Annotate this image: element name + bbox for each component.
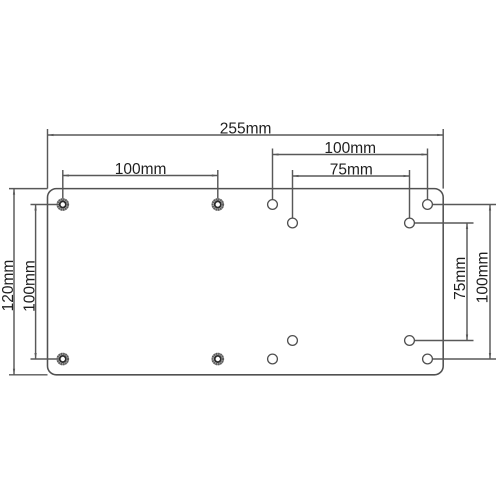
dimension line 100mm top-right <box>273 154 428 156</box>
extension line: right plate edge extended up (255mm right reference) <box>442 129 444 189</box>
screw top-left <box>58 199 69 210</box>
dimension line 100mm top-left <box>63 175 218 177</box>
arrows 255mm <box>48 134 54 136</box>
dimension line 120mm left <box>13 189 15 375</box>
arrows 120mm <box>13 189 15 195</box>
screws: left VESA100 pattern <box>58 199 224 364</box>
hole 75 pattern bottom-left <box>288 336 298 346</box>
dimension line 100mm right vertical <box>489 205 491 360</box>
extension line: left plate edge extended up (255mm left reference) <box>47 129 49 189</box>
extension line: top screw row extended left <box>31 204 61 206</box>
extension line: second screw column <box>217 170 219 205</box>
extension line: right 100 bottom row extended right <box>432 358 496 360</box>
hole 75 pattern top-right <box>405 218 415 228</box>
arrows 100mm right vertical <box>489 205 491 211</box>
dimension line 75mm right vertical <box>466 223 468 341</box>
svg-text:255mm: 255mm <box>220 120 272 137</box>
hole 100 pattern bottom-right <box>423 354 433 364</box>
arrowheads <box>13 134 491 375</box>
hole 100 pattern bottom-left <box>268 354 278 364</box>
extension line: left top screw column <box>62 170 64 205</box>
arrows 75mm top <box>293 175 299 177</box>
arrows 100mm left vertical <box>34 205 36 211</box>
screw bottom-left <box>58 354 69 365</box>
svg-text:100mm: 100mm <box>475 252 492 304</box>
extension line: right 100 pattern right column <box>427 149 429 200</box>
extension line: right 100 top row extended right <box>432 204 496 206</box>
hole 100 pattern top-right <box>423 200 433 210</box>
extension line: plate top edge extended left (120mm top reference) <box>9 188 48 190</box>
dimension line 255mm <box>48 134 444 136</box>
screw bottom-right <box>213 354 224 365</box>
svg-text:100mm: 100mm <box>324 140 376 157</box>
arrows 75mm right vertical <box>466 223 468 229</box>
svg-text:75mm: 75mm <box>452 257 469 300</box>
plate outline <box>48 189 444 375</box>
dimension line 100mm left vertical <box>35 205 37 360</box>
hole 100 pattern top-left <box>268 200 278 210</box>
extension line: bottom screw row extended left <box>31 358 61 360</box>
plain holes: right VESA100 pattern <box>268 200 433 364</box>
svg-text:75mm: 75mm <box>330 161 373 178</box>
arrows 100mm top-left <box>63 174 69 176</box>
extension line: 75 pattern left column <box>292 170 294 218</box>
arrows 100mm top-right <box>273 153 279 155</box>
extension line: right 100 pattern left column <box>272 149 274 200</box>
screw top-right <box>213 199 224 210</box>
hole 75 pattern top-left <box>288 218 298 228</box>
extension line: 75 pattern bottom row extended right <box>414 340 473 342</box>
svg-text:120mm: 120mm <box>0 260 17 312</box>
hole 75 pattern bottom-right <box>405 336 415 346</box>
dimension line 75mm top <box>293 175 410 177</box>
extension line: plate bottom edge extended left (120mm bottom reference) <box>9 374 48 376</box>
svg-text:100mm: 100mm <box>22 260 39 312</box>
extension line: 75 pattern top row extended right <box>414 222 473 224</box>
svg-text:100mm: 100mm <box>115 161 167 178</box>
extension line: 75 pattern right column <box>409 170 411 218</box>
